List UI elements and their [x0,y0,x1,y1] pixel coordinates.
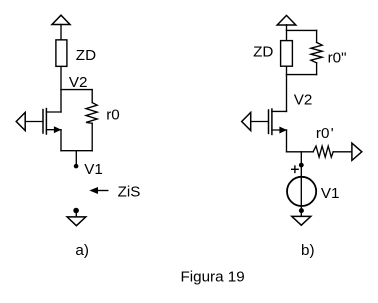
resistor r0'' lead bottom [316,63,318,75]
port P2 (supply, up triangle) [277,15,296,25]
resistor ZD (box, b) [281,41,293,67]
svg-text:V2: V2 [294,91,313,108]
ground triangle (a, down) [67,217,86,226]
transistor Q2 channel bar [271,109,273,134]
wire source vertical (b) [286,130,288,152]
resistor r0'' lead top [316,30,318,42]
output rail [287,151,314,153]
wire drain horizontal (b) [272,110,287,112]
node dot below V1 source [299,208,304,213]
port output (right triangle) [352,143,362,160]
ground dot (a) [73,208,79,214]
wire V1 stub [75,151,77,166]
port P1 (supply, up triangle) [52,15,70,24]
wire ZD box to bottom rail [286,67,288,75]
resistor ZD (box) [56,40,67,67]
wire port to parallel rail [286,25,288,31]
ground stub (a) [75,211,77,217]
wire ZD to node V2 [60,67,62,90]
resistor r0' zigzag (horizontal) [313,146,333,157]
svg-text:r0: r0 [106,106,120,123]
port gate input (left triangle) [16,112,25,130]
source V1 circle [287,177,316,206]
wire through V1 circle [300,176,302,211]
resistor r0 zigzag [86,103,97,124]
transistor Q2 gate bar [268,110,270,133]
node V1 rail [61,150,92,152]
plus sign of V1 source [292,168,299,170]
resistor r0 lead bottom [91,123,93,150]
wire drain vertical [60,90,62,112]
svg-text:V1: V1 [84,161,103,178]
parallel bottom rail [287,74,317,76]
svg-text:r0": r0" [328,50,347,67]
svg-text:ZiS: ZiS [118,184,141,201]
parallel top rail [287,29,317,31]
svg-text:V2: V2 [69,74,88,91]
transistor Q1 source arrow [54,127,60,132]
wire r0' to output port [333,151,352,153]
wire rail to ZD box [286,30,288,40]
wire port to ZD [60,25,62,40]
ground triangle (b, down) [292,216,311,225]
transistor Q1 channel bar [45,109,47,134]
wire gate [25,121,43,123]
wire node V2 down to drain [286,75,288,112]
transistor Q1 gate bar [42,110,44,133]
arrow ZiS (points left) [97,190,108,192]
svg-text:ZD: ZD [76,47,96,64]
resistor r0 lead top [91,90,93,103]
wire drain horizontal [46,111,61,113]
resistor r0'' zigzag [311,42,322,62]
wire stub to V1 source [300,152,302,176]
svg-text:ZD: ZD [253,44,273,61]
svg-text:Figura 19: Figura 19 [181,269,245,286]
svg-text:V1: V1 [321,185,340,202]
wire source horizontal [46,129,61,131]
port gate input (left triangle, b) [242,112,251,130]
node V2 rail [61,89,92,91]
svg-text:r0': r0' [316,125,334,142]
ground stub (b) [300,211,302,217]
node dot above V1 source [299,163,304,168]
svg-text:a): a) [75,242,89,259]
svg-text:b): b) [301,242,315,259]
wire source horizontal (b) [272,129,287,131]
node V1 dot [74,164,79,169]
wire source vertical [60,130,62,151]
transistor Q2 source arrow [280,127,286,132]
wire gate (b) [251,121,269,123]
